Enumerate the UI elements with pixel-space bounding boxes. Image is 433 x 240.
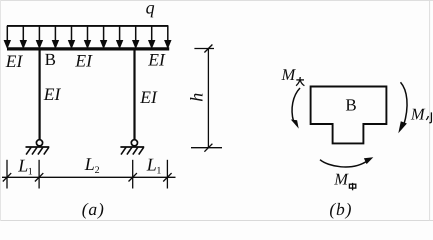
dimension tick 4 bbox=[163, 173, 171, 181]
left hatch stroke 3 bbox=[38, 147, 43, 154]
load arrow 11 bbox=[165, 26, 170, 48]
svg-text:L: L bbox=[146, 155, 157, 175]
left hatch stroke 4 bbox=[44, 147, 49, 154]
load arrow 8 bbox=[117, 26, 122, 48]
beam bbox=[7, 47, 169, 50]
svg-text:(b): (b) bbox=[329, 199, 352, 219]
svg-text:B: B bbox=[45, 50, 56, 69]
svg-text:EI: EI bbox=[43, 84, 62, 104]
h dimension top tick bbox=[204, 45, 212, 53]
right support hatching bbox=[121, 147, 144, 154]
svg-text:M: M bbox=[281, 65, 297, 84]
left moment arc (M_da) bbox=[292, 88, 300, 122]
extension line at beam left end bbox=[6, 160, 8, 189]
svg-text:L: L bbox=[17, 156, 28, 176]
dimension tick 3 bbox=[129, 173, 137, 181]
svg-text:M: M bbox=[333, 169, 349, 188]
svg-text:h: h bbox=[187, 93, 207, 102]
extension line at right column bbox=[132, 160, 134, 189]
dimension ticks bbox=[3, 160, 172, 189]
load arrow 4 bbox=[53, 26, 58, 48]
svg-text:2: 2 bbox=[95, 165, 100, 176]
bottom dimension line bbox=[2, 176, 176, 178]
subscript xiao (Chinese: small) bbox=[426, 112, 433, 122]
scan border left bbox=[0, 0, 2, 221]
right hatch stroke 2 bbox=[127, 147, 132, 154]
svg-text:1: 1 bbox=[28, 167, 33, 178]
height dimension line h bbox=[191, 45, 222, 152]
svg-text:q: q bbox=[146, 0, 155, 18]
dimension tick 1 bbox=[3, 173, 11, 181]
bottom moment arc (M_zhong) bbox=[320, 160, 368, 167]
left hatch stroke 2 bbox=[32, 147, 37, 154]
svg-text:EI: EI bbox=[74, 50, 93, 70]
joint block B outline bbox=[311, 87, 387, 144]
extension line at beam right end bbox=[166, 160, 168, 189]
load arrows (11 shafts + heads) bbox=[5, 26, 171, 48]
distributed load top line bbox=[7, 25, 168, 27]
left support hatching bbox=[26, 147, 49, 154]
extension line at left column bbox=[38, 160, 40, 189]
load arrow 1 bbox=[5, 26, 10, 48]
left support ground line bbox=[26, 146, 50, 148]
right support ground line bbox=[120, 146, 144, 148]
dimension tick 2 bbox=[35, 173, 43, 181]
load arrow 5 bbox=[69, 26, 74, 48]
svg-text:EI: EI bbox=[139, 87, 158, 107]
left hatch stroke 1 bbox=[26, 147, 31, 154]
right hatch stroke 3 bbox=[133, 147, 138, 154]
subscript da (Chinese: big) bbox=[296, 77, 304, 86]
h dimension bottom extension line bbox=[191, 147, 222, 149]
h dimension top extension line bbox=[194, 48, 214, 50]
svg-text:B: B bbox=[345, 95, 356, 114]
right hatch stroke 4 bbox=[139, 147, 144, 154]
svg-text:1: 1 bbox=[156, 166, 161, 177]
load arrow 3 bbox=[37, 26, 42, 48]
svg-text:L: L bbox=[84, 154, 95, 174]
load arrow 2 bbox=[21, 26, 26, 48]
svg-text:(a): (a) bbox=[82, 199, 105, 219]
left pin support hinge circle bbox=[36, 140, 42, 146]
right pin support hinge circle bbox=[131, 140, 137, 146]
scan border top bbox=[0, 0, 433, 2]
load arrow 6 bbox=[85, 26, 90, 48]
subscript zhong (Chinese: middle) bbox=[349, 183, 355, 190]
load arrow 7 bbox=[101, 26, 106, 48]
right moment arc (M_xiao) bbox=[401, 82, 408, 125]
load arrow 9 bbox=[133, 26, 138, 48]
svg-text:EI: EI bbox=[147, 49, 166, 69]
left column bbox=[38, 51, 40, 140]
h dimension vertical line bbox=[207, 49, 209, 148]
right column bbox=[133, 51, 135, 140]
scan border right bbox=[429, 0, 431, 221]
scan border bottom bbox=[0, 220, 433, 222]
svg-text:EI: EI bbox=[5, 51, 24, 71]
right hatch stroke 1 bbox=[121, 147, 126, 154]
svg-text:M: M bbox=[410, 104, 426, 123]
h dimension bottom tick bbox=[204, 144, 212, 152]
load arrow 10 bbox=[149, 26, 154, 48]
